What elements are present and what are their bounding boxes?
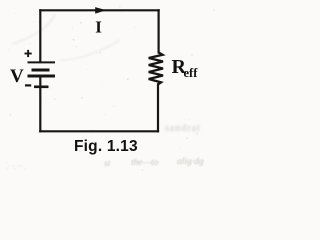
svg-text:alig·dg: alig·dg — [177, 157, 204, 167]
svg-text:I: I — [95, 18, 102, 37]
svg-text:V: V — [10, 66, 24, 87]
svg-text:the—to: the—to — [131, 158, 159, 168]
svg-text:.· ·. ·· .: .· ·. ·· . — [6, 162, 26, 171]
svg-text:sandrat: sandrat — [165, 123, 201, 134]
svg-text:Fig. 1.13: Fig. 1.13 — [74, 138, 138, 155]
svg-text:st: st — [104, 159, 111, 169]
svg-text:eff: eff — [184, 66, 199, 80]
